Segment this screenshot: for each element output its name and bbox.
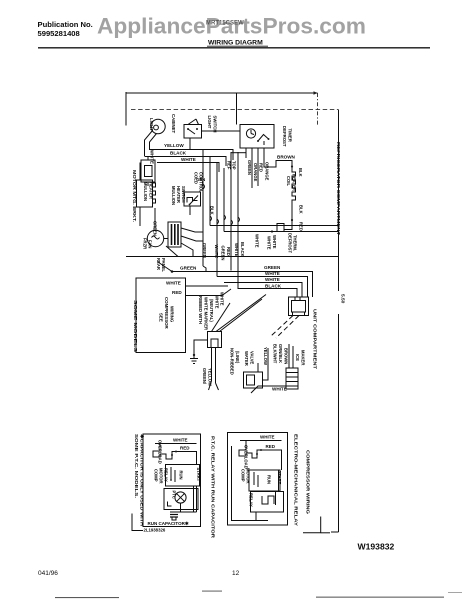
defrost coil heater R2 (zigzag) — [292, 167, 296, 204]
wire brown — [264, 157, 292, 167]
svg-text:SWITCH: SWITCH — [213, 116, 218, 133]
cabinet light L1 — [151, 119, 165, 133]
svg-text:CABINET: CABINET — [171, 114, 176, 133]
svg-text:WHITE: WHITE — [166, 281, 181, 286]
svg-text:COMPRESSOR WIRING: COMPRESSOR WIRING — [305, 450, 311, 514]
wires relay to ptc — [193, 486, 195, 512]
svg-text:WIRING DIAGRM: WIRING DIAGRM — [208, 40, 263, 47]
run capacitor C1 — [175, 492, 186, 503]
svg-text:BLACK: BLACK — [240, 242, 245, 257]
svg-text:REFRIGERATOR COMPARTMENT: REFRIGERATOR COMPARTMENT — [336, 142, 341, 235]
long wire y231 — [224, 231, 339, 233]
svg-text:YELLOW: YELLOW — [263, 347, 268, 365]
PTC inset frame — [143, 434, 201, 527]
svg-text:RED: RED — [266, 444, 276, 449]
relay contact box (em) — [249, 470, 280, 491]
dash-dot vertical at dimension corner — [317, 93, 319, 125]
svg-text:LIGHT: LIGHT — [149, 118, 154, 131]
wire hops — [203, 184, 240, 225]
svg-text:W193832: W193832 — [358, 542, 395, 552]
svg-text:MOTOR: MOTOR — [159, 468, 164, 484]
wires (em) — [275, 491, 277, 505]
right boundary vertical (upper) — [338, 110, 340, 291]
svg-text:WHITE: WHITE — [181, 157, 196, 162]
svg-text:START: START — [196, 468, 201, 482]
svg-text:RED: RED — [180, 446, 190, 451]
dimension line left — [125, 92, 127, 126]
wires to ice maker — [288, 344, 290, 368]
svg-text:5995281408: 5995281408 — [38, 29, 80, 38]
svg-text:WHITE: WHITE — [220, 292, 225, 306]
svg-text:MRT15CSEW: MRT15CSEW — [206, 21, 244, 27]
wires connector to ice maker (dashed diagonals) — [276, 316, 299, 339]
svg-text:GREEN: GREEN — [221, 246, 226, 261]
svg-text:RED: RED — [299, 222, 304, 231]
light switch S1 — [184, 125, 202, 139]
svg-text:PTC: PTC — [172, 491, 177, 499]
wire black bus — [238, 283, 297, 298]
wire white (ptc) — [155, 443, 197, 445]
svg-text:BLACK: BLACK — [170, 151, 187, 156]
svg-text:HEATER: HEATER — [292, 174, 297, 191]
svg-text:SEE: SEE — [159, 313, 164, 322]
svg-text:RED: RED — [172, 290, 182, 295]
ice maker connector J3 — [286, 368, 298, 389]
svg-text:ORANGE: ORANGE — [253, 163, 258, 182]
corner mark bottom right — [303, 517, 321, 533]
svg-text:YELLOW: YELLOW — [208, 368, 213, 386]
svg-text:ORANGE: ORANGE — [265, 162, 270, 181]
freezer floor line — [126, 256, 339, 258]
svg-text:WHITE: WHITE — [272, 235, 277, 249]
svg-text:RUN: RUN — [267, 475, 272, 484]
svg-text:WIRING: WIRING — [170, 306, 175, 323]
EM inset frame — [228, 433, 288, 526]
wire red (ptc) — [176, 452, 197, 465]
wire white bus 1 — [217, 277, 308, 298]
svg-text:P.T.C. RELAY WITH RUN CAPACITO: P.T.C. RELAY WITH RUN CAPACITOR — [211, 436, 216, 539]
svg-text:RED: RED — [259, 163, 264, 172]
svg-text:ICE: ICE — [295, 354, 300, 361]
wire timer leads down — [245, 148, 247, 158]
svg-text:GRN/BLK: GRN/BLK — [278, 344, 283, 363]
svg-text:COIL: COIL — [286, 176, 291, 186]
svg-text:WHITE MARKER: WHITE MARKER — [204, 297, 209, 330]
svg-text:GREEN: GREEN — [264, 265, 281, 270]
svg-text:VALVE: VALVE — [250, 351, 255, 365]
unit compartment connector J2 — [289, 297, 309, 316]
svg-text:GREEN: GREEN — [202, 243, 207, 258]
svg-text:START: START — [277, 471, 282, 485]
long wire y225 — [210, 225, 339, 227]
wire green bus — [172, 272, 313, 298]
header rule — [38, 47, 430, 49]
relay coil box (em) — [251, 492, 284, 513]
svg-text:RED: RED — [226, 247, 231, 256]
svg-text:GREEN: GREEN — [180, 266, 197, 271]
run capacitor symbol — [170, 514, 178, 516]
svg-text:MAKER: MAKER — [301, 350, 306, 365]
svg-text:REAR: REAR — [156, 258, 161, 270]
svg-text:WHITE: WHITE — [265, 271, 280, 276]
wire yellow bus — [150, 150, 234, 161]
svg-text:YELLOW: YELLOW — [164, 143, 184, 148]
svg-text:WATER: WATER — [244, 351, 249, 366]
wire fan to connector — [164, 238, 168, 240]
svg-text:BLK: BLK — [299, 205, 304, 214]
svg-text:SOME MODELS: SOME MODELS — [133, 300, 138, 352]
motor mounting bracket — [141, 160, 155, 182]
relay contact box (ptc) — [166, 465, 200, 487]
svg-text:MULLION: MULLION — [143, 182, 148, 201]
svg-text:WHITE: WHITE — [255, 234, 260, 248]
svg-text:COMPRESSOR: COMPRESSOR — [164, 297, 169, 330]
svg-text:2L1938326: 2L1938326 — [144, 528, 166, 533]
svg-text:PANEL: PANEL — [161, 258, 166, 272]
power plug P1 — [208, 332, 222, 348]
svg-text:HEATER: HEATER — [176, 186, 181, 203]
svg-text:SOME P.T.C. MODELS.: SOME P.T.C. MODELS. — [134, 434, 139, 498]
svg-text:RUN: RUN — [179, 471, 184, 480]
svg-text:GREEN: GREEN — [247, 160, 252, 175]
ptc device box — [164, 489, 198, 510]
svg-text:TOP: TOP — [232, 161, 237, 170]
svg-text:UNIT COMPARTMENT: UNIT COMPARTMENT — [313, 309, 318, 369]
svg-text:GREEN/: GREEN/ — [202, 368, 207, 385]
svg-text:WHITE: WHITE — [267, 236, 272, 250]
wire connector leads — [181, 228, 203, 232]
wire black bus — [145, 157, 227, 167]
wire lamp leads — [145, 131, 153, 157]
ground symbol — [190, 358, 198, 360]
svg-text:12: 12 — [232, 570, 240, 577]
main harness verticals — [202, 150, 204, 266]
wire white (em) — [240, 440, 282, 442]
svg-text:BROWN: BROWN — [277, 155, 296, 160]
svg-text:(NEUTRAL): (NEUTRAL) — [209, 299, 214, 322]
svg-text:WHITE: WHITE — [215, 295, 220, 309]
svg-text:041/96: 041/96 — [38, 570, 58, 577]
svg-text:✱CAPACITOR IS ONLY USED WITH: ✱CAPACITOR IS ONLY USED WITH — [140, 434, 145, 526]
svg-text:BROWN: BROWN — [284, 348, 289, 364]
svg-text:RUN CAPACITOR✱: RUN CAPACITOR✱ — [148, 521, 190, 526]
wire cold control lead — [189, 206, 191, 215]
corner mark bottom left — [132, 514, 143, 531]
svg-text:TIMER: TIMER — [288, 129, 293, 143]
see compressor wiring box — [136, 278, 186, 353]
svg-text:FAN: FAN — [148, 240, 153, 248]
wire fan lead up — [154, 208, 156, 230]
svg-text:WHITE: WHITE — [234, 243, 239, 257]
svg-text:COMP: COMP — [241, 469, 246, 482]
svg-text:WHITE: WHITE — [173, 438, 188, 443]
connector J1 (fan plug) — [168, 222, 181, 247]
wire white bus — [157, 163, 219, 173]
svg-text:BLACK: BLACK — [265, 284, 282, 289]
wires plug risers — [212, 303, 231, 332]
right boundary vertical (lower) — [338, 314, 340, 532]
svg-text:DEFROST: DEFROST — [288, 233, 293, 253]
wire switch to timer — [202, 130, 241, 132]
bottom scan artifacts — [55, 597, 119, 598]
wire heater to therm — [291, 204, 293, 220]
svg-text:WHITE: WHITE — [260, 435, 275, 440]
svg-text:DEFROST: DEFROST — [282, 126, 287, 147]
svg-text:NON-RIBBED: NON-RIBBED — [230, 348, 235, 375]
svg-text:WHITE: WHITE — [265, 277, 280, 282]
mullion heater R1 — [137, 180, 153, 207]
defrost thermostat — [284, 220, 292, 230]
wire red (em) — [261, 450, 282, 470]
svg-text:BLK/WHT: BLK/WHT — [273, 344, 278, 364]
wire switch drop — [189, 138, 191, 150]
freezer fan motor M1 — [147, 230, 163, 246]
right boundary bottom tick — [331, 531, 339, 533]
svg-text:THERM.: THERM. — [293, 235, 298, 251]
svg-text:(LINE): (LINE) — [235, 351, 240, 364]
cold control switch S2 — [184, 192, 201, 206]
rear panel ground node — [171, 270, 174, 273]
dimension line top — [126, 92, 318, 94]
defrost timer U1 — [236, 94, 238, 125]
svg-text:RIBBED WITH: RIBBED WITH — [198, 296, 203, 324]
svg-text:WHITE: WHITE — [272, 387, 287, 392]
svg-text:HEATER: HEATER — [149, 182, 154, 199]
svg-text:ELECTRO-MECHANICAL RELAY: ELECTRO-MECHANICAL RELAY — [294, 434, 299, 526]
svg-text:LIGHT: LIGHT — [207, 116, 212, 129]
cabinet top boundary (dashed) — [131, 109, 339, 111]
svg-text:FRZR: FRZR — [143, 238, 148, 249]
svg-text:MULLION: MULLION — [171, 186, 176, 205]
svg-text:GRN: GRN — [196, 177, 205, 182]
svg-text:5.50: 5.50 — [340, 294, 346, 304]
power cord — [211, 348, 213, 382]
ground wire — [194, 340, 208, 358]
svg-text:COMP: COMP — [154, 469, 159, 482]
svg-text:Publication No.: Publication No. — [38, 20, 93, 29]
wire heater leads — [139, 163, 141, 181]
wire white bus 2 — [224, 283, 302, 298]
svg-text:BLK: BLK — [298, 168, 303, 177]
